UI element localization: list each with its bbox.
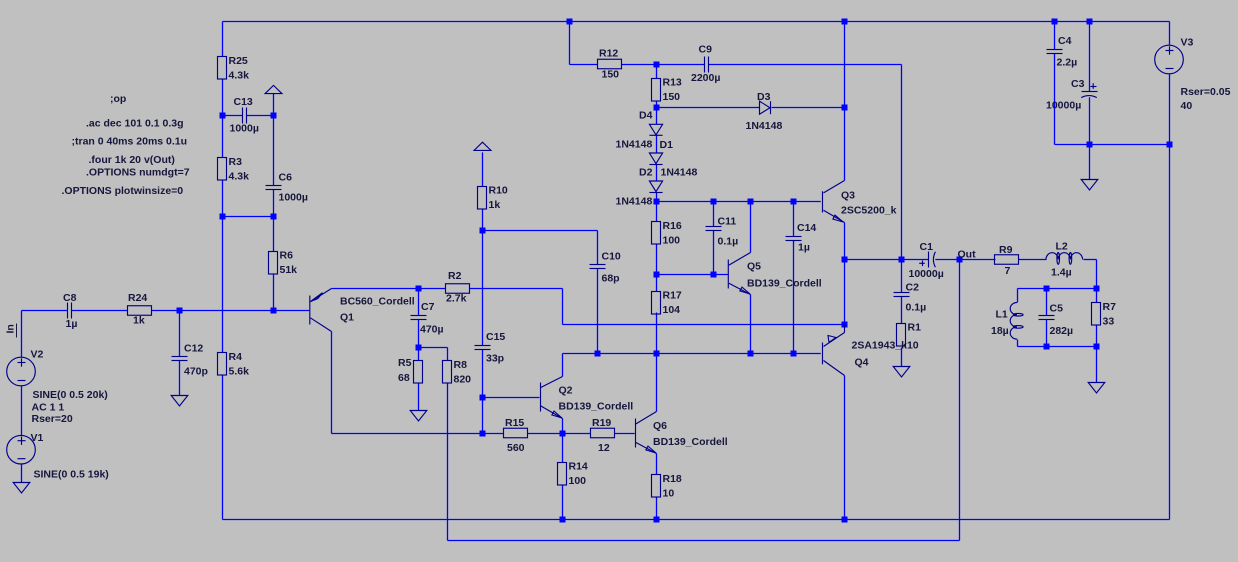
wire R8 leads bbox=[447, 348, 449, 541]
svg-text:BD139_Cordell: BD139_Cordell bbox=[653, 436, 728, 448]
node junction at 222,115 bbox=[220, 113, 226, 119]
wire R13 leads bbox=[656, 65, 658, 108]
wire VAS bias row y201 bbox=[657, 201, 821, 203]
svg-text:2200µ: 2200µ bbox=[691, 72, 720, 84]
wire row y230 bbox=[483, 230, 598, 232]
resistor R5 bbox=[398, 357, 423, 384]
svg-text:In: In bbox=[5, 324, 17, 333]
svg-text:2.2µ: 2.2µ bbox=[1057, 57, 1078, 69]
svg-text:282µ: 282µ bbox=[1050, 325, 1074, 337]
wire R18 bottom lead bbox=[656, 498, 658, 520]
svg-text:2SC5200_k: 2SC5200_k bbox=[841, 205, 897, 217]
svg-text:R9: R9 bbox=[999, 244, 1013, 256]
wire C14 leads bbox=[793, 202, 795, 354]
node junction at 656,64 bbox=[654, 62, 660, 68]
svg-text:1000µ: 1000µ bbox=[279, 192, 308, 204]
wire Q2 collector up bbox=[562, 354, 564, 377]
wire V+ flag to C6 bbox=[273, 94, 275, 217]
resistor R16 bbox=[652, 220, 682, 247]
svg-text:D3: D3 bbox=[757, 91, 771, 103]
node junction at 713,274 bbox=[711, 272, 717, 278]
svg-text:68p: 68p bbox=[602, 273, 620, 285]
svg-text:C14: C14 bbox=[797, 222, 816, 234]
svg-text:Q4: Q4 bbox=[855, 357, 869, 369]
capacitor C6 bbox=[266, 172, 308, 204]
capacitor C8 bbox=[63, 292, 77, 330]
svg-text:;tran 0 40ms 20ms 0.1u: ;tran 0 40ms 20ms 0.1u bbox=[72, 136, 188, 148]
svg-text:12: 12 bbox=[598, 442, 610, 454]
resistor R6 bbox=[269, 250, 298, 277]
svg-text:820: 820 bbox=[454, 374, 472, 386]
node junction at 656,107.5 bbox=[654, 105, 660, 111]
svg-text:R3: R3 bbox=[229, 156, 243, 168]
wire D3 row left bbox=[657, 107, 760, 109]
svg-text:R16: R16 bbox=[663, 220, 682, 232]
voltage source V1 bbox=[7, 432, 109, 481]
capacitor C2 bbox=[894, 282, 927, 314]
node junction at 656,201.5 bbox=[654, 199, 660, 205]
svg-text:100: 100 bbox=[569, 475, 587, 487]
wire V2 column bbox=[21, 311, 23, 483]
wire D3 row right bbox=[772, 107, 845, 109]
capacitor C4 bbox=[1047, 35, 1078, 69]
svg-text:R14: R14 bbox=[569, 461, 588, 473]
wire R1 bottom lead bbox=[901, 348, 903, 367]
svg-text:R4: R4 bbox=[229, 351, 243, 363]
wire Q1 emitter to R2 bbox=[332, 288, 563, 290]
node junction at 597,353 bbox=[595, 351, 601, 357]
wire LTP row y433 bbox=[332, 433, 635, 435]
svg-text:R24: R24 bbox=[128, 292, 147, 304]
wire bottom feedback loop bbox=[448, 260, 960, 541]
resistor R4 bbox=[218, 351, 250, 378]
capacitor C10 bbox=[590, 251, 621, 285]
wire R6 leads bbox=[273, 217, 275, 311]
svg-text:R10: R10 bbox=[489, 185, 508, 197]
capacitor C12 bbox=[172, 343, 208, 378]
ground below C12 bbox=[171, 396, 188, 407]
capacitor C5 bbox=[1039, 303, 1074, 338]
diode D2 bbox=[616, 167, 663, 208]
resistor R10 bbox=[478, 185, 508, 212]
svg-text:100: 100 bbox=[663, 235, 681, 247]
wire top positive rail bbox=[223, 21, 1170, 23]
wire C9 to right drop bbox=[709, 65, 902, 260]
ground below R5 bbox=[410, 411, 427, 422]
resistor R19 bbox=[591, 417, 615, 454]
svg-text:C10: C10 bbox=[602, 251, 621, 263]
wire R10 flag lead bbox=[482, 152, 484, 186]
wire Q5 base row bbox=[657, 274, 729, 276]
wire C3 leads bbox=[1089, 22, 1091, 180]
node junction at 273,310.5 bbox=[271, 308, 277, 314]
resistor R3 bbox=[218, 156, 250, 183]
resistor R2 bbox=[446, 270, 470, 305]
wire C12 leads bbox=[179, 311, 181, 396]
svg-text:R1: R1 bbox=[908, 322, 922, 334]
resistor R25 bbox=[218, 55, 250, 82]
wire R10 bottom bbox=[482, 210, 484, 231]
svg-text:40: 40 bbox=[1181, 100, 1193, 112]
transistor Q5 bbox=[728, 253, 821, 295]
wire Q3 emitter drop bbox=[844, 223, 846, 260]
svg-text:470p: 470p bbox=[184, 366, 208, 378]
svg-text:R15: R15 bbox=[505, 417, 524, 429]
wire R13 node to C9 bbox=[657, 64, 705, 66]
svg-text:R6: R6 bbox=[280, 250, 294, 262]
capacitor C11 bbox=[706, 216, 739, 248]
diode D1 bbox=[649, 139, 697, 179]
svg-text:R7: R7 bbox=[1103, 301, 1117, 313]
node junction at 844,259.5 bbox=[842, 257, 848, 263]
net label In bbox=[5, 324, 17, 338]
wire Q5 emitter down bbox=[750, 295, 752, 354]
svg-text:V2: V2 bbox=[31, 349, 44, 361]
capacitor C14 bbox=[786, 222, 817, 254]
node junction at 1054,21 bbox=[1052, 19, 1058, 25]
node junction at 656,519 bbox=[654, 517, 660, 523]
power flag V+ above R10 bbox=[474, 142, 491, 150]
svg-text:L1: L1 bbox=[996, 309, 1008, 321]
svg-text:C4: C4 bbox=[1058, 35, 1072, 47]
transistor Q4 bbox=[823, 325, 919, 376]
svg-text:R12: R12 bbox=[599, 48, 618, 60]
diode D4 bbox=[616, 110, 663, 151]
wire Q2 base row bbox=[483, 397, 540, 399]
svg-text:7: 7 bbox=[1005, 265, 1011, 277]
svg-text:0.1µ: 0.1µ bbox=[906, 302, 927, 314]
wire input row bbox=[22, 310, 310, 312]
svg-text:V1: V1 bbox=[31, 432, 44, 444]
wire C10 leads bbox=[597, 231, 599, 354]
diode D3 bbox=[746, 91, 783, 132]
node junction at 1089,144 bbox=[1087, 142, 1093, 148]
node junction at 844,519 bbox=[842, 517, 848, 523]
svg-text:Q2: Q2 bbox=[559, 385, 573, 397]
svg-text:.OPTIONS plotwinsize=0: .OPTIONS plotwinsize=0 bbox=[62, 185, 184, 197]
node junction at 482,397 bbox=[480, 395, 486, 401]
svg-text:560: 560 bbox=[507, 442, 525, 454]
svg-text:C2: C2 bbox=[906, 282, 920, 294]
svg-text:D2: D2 bbox=[639, 167, 653, 179]
resistor R14 bbox=[558, 461, 588, 488]
capacitor C15 bbox=[475, 331, 506, 365]
net label Out bbox=[958, 249, 977, 261]
node junction at 901,259.5 bbox=[899, 257, 905, 263]
wire V3 leads bbox=[1169, 22, 1171, 520]
capacitor C9 bbox=[691, 44, 720, 85]
svg-text:Out: Out bbox=[958, 249, 977, 261]
svg-text:;op: ;op bbox=[110, 93, 126, 105]
node junction at 656,274 bbox=[654, 272, 660, 278]
transistor Q2 bbox=[541, 377, 634, 419]
svg-text:C8: C8 bbox=[63, 292, 77, 304]
node junction at 562,519 bbox=[560, 517, 566, 523]
wire R16 leads bbox=[656, 202, 658, 275]
svg-text:SINE(0 0.5 20k): SINE(0 0.5 20k) bbox=[33, 389, 108, 401]
svg-text:5.6k: 5.6k bbox=[229, 366, 250, 378]
wire bottom negative rail bbox=[223, 519, 1170, 521]
wire Q4 collector drop bbox=[844, 376, 846, 520]
svg-text:150: 150 bbox=[663, 91, 681, 103]
node junction at 793,353 bbox=[791, 351, 797, 357]
svg-text:.four 1k 20 v(Out): .four 1k 20 v(Out) bbox=[89, 154, 175, 166]
svg-text:2SA1943_k10: 2SA1943_k10 bbox=[852, 339, 919, 351]
svg-text:.OPTIONS numdgt=7: .OPTIONS numdgt=7 bbox=[86, 167, 190, 179]
resistor R12 bbox=[598, 48, 622, 81]
svg-text:68: 68 bbox=[398, 372, 410, 384]
node junction at 482,230 bbox=[480, 228, 486, 234]
wire R5 leads bbox=[418, 348, 420, 411]
svg-text:C12: C12 bbox=[184, 343, 203, 355]
svg-text:33: 33 bbox=[1103, 316, 1115, 328]
node junction at 844,21 bbox=[842, 19, 848, 25]
wire Q3 collector drop bbox=[844, 22, 846, 181]
wire C2 leads bbox=[901, 260, 903, 324]
wire R12 to R13 node bbox=[622, 64, 657, 66]
wire row y216 bbox=[223, 216, 274, 218]
node junction at 562,433 bbox=[560, 431, 566, 437]
resistor R7 bbox=[1092, 301, 1117, 328]
svg-text:Q5: Q5 bbox=[747, 261, 761, 273]
capacitor C13 bbox=[230, 96, 259, 135]
svg-text:4.3k: 4.3k bbox=[229, 70, 250, 82]
wire C11 leads bbox=[713, 202, 715, 275]
wire L2 to corner bbox=[1084, 260, 1097, 289]
svg-text:Rser=20: Rser=20 bbox=[32, 413, 73, 425]
resistor R9 bbox=[995, 244, 1019, 277]
svg-text:C15: C15 bbox=[486, 331, 505, 343]
wire C5 leads bbox=[1046, 289, 1048, 347]
svg-text:470µ: 470µ bbox=[420, 324, 444, 336]
svg-text:C7: C7 bbox=[421, 301, 435, 313]
svg-text:150: 150 bbox=[602, 69, 620, 81]
svg-text:R17: R17 bbox=[663, 290, 682, 302]
wire diode chain stubs bbox=[656, 108, 658, 202]
svg-text:1k: 1k bbox=[489, 199, 501, 211]
svg-text:R5: R5 bbox=[398, 357, 412, 369]
spice directive .OPTIONS numdgt bbox=[86, 167, 190, 179]
transistor Q1 bbox=[310, 289, 415, 332]
node junction at 273,115 bbox=[271, 113, 277, 119]
svg-text:V3: V3 bbox=[1181, 37, 1194, 49]
node junction at 959,259.5 bbox=[957, 257, 963, 263]
ground below V1 bbox=[13, 483, 30, 494]
svg-text:BC560_Cordell: BC560_Cordell bbox=[340, 296, 415, 308]
svg-text:1k: 1k bbox=[133, 315, 145, 327]
resistor R17 bbox=[652, 290, 682, 317]
svg-text:1N4148: 1N4148 bbox=[616, 196, 653, 208]
spice directive .OPTIONS plotwinsize bbox=[62, 185, 184, 197]
svg-text:C6: C6 bbox=[279, 172, 293, 184]
svg-text:1000µ: 1000µ bbox=[230, 123, 259, 135]
spice directive .ac bbox=[86, 118, 183, 130]
svg-text:R25: R25 bbox=[229, 55, 248, 67]
node junction at 750,353 bbox=[748, 351, 754, 357]
wire feedback row y324 bbox=[563, 324, 845, 326]
ground supply mid ground bbox=[1081, 180, 1098, 191]
wire R2 drop bbox=[562, 289, 564, 325]
resistor R24 bbox=[128, 292, 152, 327]
svg-text:10000µ: 10000µ bbox=[1046, 100, 1081, 112]
wire R17 leads bbox=[656, 275, 658, 354]
svg-text:D4: D4 bbox=[639, 110, 653, 122]
node junction at 569,21 bbox=[567, 19, 573, 25]
wire R14 leads bbox=[562, 434, 564, 520]
capacitor C7 bbox=[411, 301, 444, 336]
node junction at 1096,288 bbox=[1094, 286, 1100, 292]
inductor L1 bbox=[991, 303, 1023, 340]
wire R5 R8 branch row bbox=[419, 347, 448, 349]
svg-text:L2: L2 bbox=[1056, 241, 1068, 253]
svg-text:C5: C5 bbox=[1050, 303, 1064, 315]
wire LC top row bbox=[1018, 288, 1097, 290]
voltage source V3 bbox=[1155, 37, 1231, 113]
wire Q6 collector up bbox=[656, 354, 658, 412]
svg-text:R13: R13 bbox=[663, 77, 682, 89]
svg-text:33p: 33p bbox=[486, 353, 504, 365]
svg-text:SINE(0 0.5 19k): SINE(0 0.5 19k) bbox=[34, 469, 109, 481]
svg-text:18µ: 18µ bbox=[991, 325, 1009, 337]
svg-text:C1: C1 bbox=[920, 241, 934, 253]
resistor R13 bbox=[652, 77, 682, 104]
svg-text:R8: R8 bbox=[454, 359, 468, 371]
voltage source V2 bbox=[7, 349, 108, 426]
svg-text:C11: C11 bbox=[718, 216, 737, 228]
svg-text:C3: C3 bbox=[1071, 78, 1085, 90]
node junction at 179,310.5 bbox=[177, 308, 183, 314]
wire C15 column bbox=[482, 231, 484, 434]
wire Q6 emitter down bbox=[656, 454, 658, 475]
node junction at 1096,346 bbox=[1094, 344, 1100, 350]
node junction at 1046,346 bbox=[1044, 344, 1050, 350]
svg-text:Q3: Q3 bbox=[841, 190, 855, 202]
wire R25 R3 R4 column bbox=[222, 22, 224, 520]
wire L1 leads bbox=[1017, 289, 1019, 347]
wire Q1 collector drop bbox=[331, 332, 333, 434]
node junction at 418,288.5 bbox=[416, 286, 422, 292]
svg-text:R18: R18 bbox=[663, 473, 682, 485]
spice directive ;op bbox=[110, 93, 126, 105]
node junction at 222,216 bbox=[220, 214, 226, 220]
node junction at 418,347 bbox=[416, 345, 422, 351]
svg-text:104: 104 bbox=[663, 304, 681, 316]
wire C7 leads bbox=[418, 289, 420, 348]
svg-text:Rser=0.05: Rser=0.05 bbox=[1181, 86, 1231, 98]
node junction at 656,353 bbox=[654, 351, 660, 357]
node junction at 750,201.5 bbox=[748, 199, 754, 205]
svg-text:1N4148: 1N4148 bbox=[661, 167, 698, 179]
wire C4 leads bbox=[1054, 22, 1056, 145]
node junction at 273,216 bbox=[271, 214, 277, 220]
svg-text:10: 10 bbox=[663, 488, 675, 500]
svg-text:BD139_Cordell: BD139_Cordell bbox=[747, 278, 822, 290]
svg-text:51k: 51k bbox=[280, 264, 298, 276]
svg-text:AC 1 1: AC 1 1 bbox=[32, 402, 65, 414]
svg-text:Q1: Q1 bbox=[340, 312, 354, 324]
wire row y144 bbox=[1055, 144, 1170, 146]
svg-text:2.7k: 2.7k bbox=[446, 293, 467, 305]
capacitor C3 polarized bbox=[1046, 78, 1098, 112]
svg-text:1µ: 1µ bbox=[798, 242, 810, 254]
svg-text:C13: C13 bbox=[234, 96, 253, 108]
inductor L2 bbox=[1046, 241, 1083, 279]
node junction at 1046,288 bbox=[1044, 286, 1050, 292]
svg-text:.ac dec 101 0.1 0.3g: .ac dec 101 0.1 0.3g bbox=[86, 118, 183, 130]
svg-text:Q6: Q6 bbox=[653, 420, 667, 432]
wire C13 row bbox=[223, 115, 274, 117]
svg-text:C9: C9 bbox=[699, 44, 713, 56]
node junction at 1089,21 bbox=[1087, 19, 1093, 25]
wire R9 to L2 bbox=[1019, 259, 1047, 261]
wire Q5 collector up bbox=[750, 202, 752, 253]
capacitor C1 polarized bbox=[909, 241, 944, 280]
svg-text:1µ: 1µ bbox=[66, 318, 78, 330]
svg-text:0.1µ: 0.1µ bbox=[718, 236, 739, 248]
wire output row bbox=[845, 259, 996, 261]
power flag V+ near C13 bbox=[265, 85, 282, 93]
node junction at 793,201.5 bbox=[791, 199, 797, 205]
spice directive ;tran bbox=[72, 136, 188, 148]
transistor Q6 bbox=[636, 412, 728, 454]
svg-text:1N4148: 1N4148 bbox=[616, 139, 653, 151]
ground below R7 bbox=[1088, 383, 1105, 394]
svg-text:D1: D1 bbox=[660, 139, 674, 151]
wire Q2 emitter down bbox=[562, 419, 564, 434]
wire V+ drop to R12 row bbox=[570, 22, 598, 65]
svg-text:R19: R19 bbox=[592, 417, 611, 429]
wire LC bottom row bbox=[1018, 346, 1097, 348]
svg-text:10000µ: 10000µ bbox=[909, 268, 944, 280]
resistor R8 bbox=[443, 359, 472, 386]
svg-text:R2: R2 bbox=[448, 270, 462, 282]
resistor R18 bbox=[652, 473, 682, 500]
wire R7 leads bbox=[1096, 289, 1098, 383]
svg-text:1.4µ: 1.4µ bbox=[1051, 267, 1072, 279]
node junction at 844,324 bbox=[842, 322, 848, 328]
svg-text:BD139_Cordell: BD139_Cordell bbox=[559, 401, 634, 413]
node junction at 844,107.5 bbox=[842, 105, 848, 111]
svg-text:1N4148: 1N4148 bbox=[746, 120, 783, 132]
transistor Q3 bbox=[823, 181, 897, 223]
node junction at 713,201.5 bbox=[711, 199, 717, 205]
node junction at 1169,144 bbox=[1167, 142, 1173, 148]
spice directive .four bbox=[89, 154, 175, 166]
node junction at 482,433 bbox=[480, 431, 486, 437]
wire Q4 emitter column bbox=[844, 260, 846, 325]
resistor R15 bbox=[504, 417, 528, 454]
svg-text:4.3k: 4.3k bbox=[229, 171, 250, 183]
ground below R1 bbox=[893, 367, 910, 378]
resistor R1 bbox=[897, 322, 922, 347]
wire VAS row y353 bbox=[563, 353, 821, 355]
